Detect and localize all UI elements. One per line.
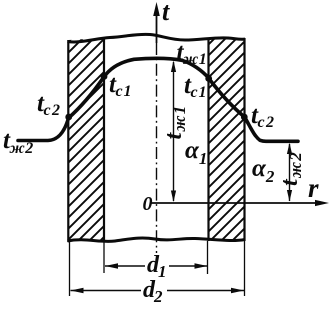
wall right inner boundary line [207, 38, 209, 241]
svg-text:t: t [162, 0, 170, 26]
t_zh2 vertical dimension arrow right [289, 144, 291, 201]
temperature curve [18, 58, 298, 141]
node tc1 left (dot) [101, 73, 108, 80]
extension line left inner to d1 [103, 242, 105, 273]
r axis [151, 202, 324, 204]
t_zh1 vertical dimension arrow [173, 62, 175, 201]
wavy break line bottom [68, 238, 246, 242]
node tc2 left (dot) [65, 114, 72, 121]
wall left outer boundary line [67, 40, 69, 242]
wavy break line top [68, 34, 246, 42]
wall left inner boundary line [103, 37, 105, 242]
wall left hatched section [69, 38, 105, 241]
axis of symmetry (dash-dot centerline) [156, 43, 158, 253]
wall right outer boundary line [243, 38, 245, 241]
t axis arrow [156, 6, 158, 43]
node tc2 right (dot) [241, 114, 248, 121]
wall right hatched section [209, 39, 245, 240]
extension line left outer to d2 [69, 242, 71, 296]
svg-text:0: 0 [143, 193, 153, 215]
extension line right inner to d1 [207, 241, 209, 274]
node tc1 right (dot) [205, 75, 212, 82]
d1 dimension line [105, 265, 145, 267]
svg-text:r: r [308, 173, 319, 203]
d2 dimension line [71, 290, 142, 292]
extension line right outer to d2 [244, 241, 246, 296]
